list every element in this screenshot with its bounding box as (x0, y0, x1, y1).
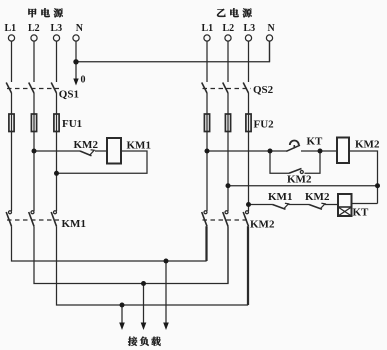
svg-text:L3: L3 (51, 23, 63, 34)
svg-text:KM2: KM2 (305, 191, 330, 203)
svg-text:N: N (268, 23, 276, 34)
svg-text:KM1: KM1 (62, 218, 86, 230)
svg-text:KM1: KM1 (127, 139, 151, 151)
svg-text:L2: L2 (28, 23, 40, 34)
svg-text:L1: L1 (5, 23, 17, 34)
svg-text:KM2: KM2 (355, 139, 380, 151)
svg-text:L2: L2 (223, 23, 235, 34)
svg-text:L1: L1 (202, 23, 214, 34)
svg-text:KT: KT (307, 135, 324, 147)
svg-text:L3: L3 (244, 23, 256, 34)
svg-text:KM2: KM2 (287, 174, 312, 186)
svg-text:KM2: KM2 (250, 219, 275, 231)
svg-text:QS1: QS1 (59, 89, 79, 101)
svg-text:KT: KT (353, 207, 370, 219)
svg-text:N: N (76, 23, 84, 34)
svg-text:FU1: FU1 (62, 118, 82, 130)
svg-text:QS2: QS2 (253, 84, 274, 96)
svg-text:KM1: KM1 (268, 191, 292, 203)
svg-text:0: 0 (81, 75, 86, 86)
svg-text:KM2: KM2 (74, 139, 99, 151)
svg-text:FU2: FU2 (254, 119, 275, 131)
